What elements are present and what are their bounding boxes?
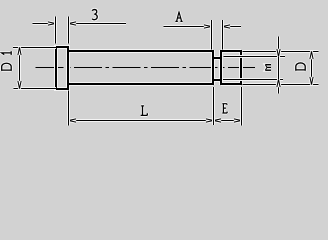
vertical extension / dimension lines <box>20 17 312 126</box>
W bottom extension line <box>223 79 283 81</box>
shaft bottom edge <box>68 83 213 85</box>
label A <box>175 11 182 21</box>
dim D top arrow <box>310 52 313 60</box>
dim D1 bottom arrow <box>18 81 21 89</box>
dim E line <box>214 120 242 122</box>
label D1 (rotated 90 CCW) <box>2 51 12 71</box>
groove bottom edge <box>213 79 221 81</box>
dim W top arrow <box>277 49 280 57</box>
part outline halo <box>56 47 241 89</box>
D top extension line <box>243 51 319 53</box>
dim 3 left arrow <box>48 22 56 25</box>
dim L left extension line <box>68 91 70 126</box>
shaft top edge <box>68 50 213 52</box>
horizontal arrowheads <box>48 22 242 122</box>
label L <box>141 106 148 116</box>
dim 3 left tail <box>33 23 56 25</box>
dim A left arrow <box>204 25 212 28</box>
label W (rotated, drawn as path) <box>265 65 271 71</box>
dim 3 right tail <box>69 23 127 25</box>
dim L right arrow <box>206 119 214 122</box>
dim 3 left extension line <box>55 17 57 44</box>
tip left edge <box>220 50 222 85</box>
shaft right end edge <box>212 50 214 85</box>
dim 3 right extension line <box>68 17 70 44</box>
dim A right extension line <box>222 20 224 50</box>
dim L/E shared extension line <box>213 87 215 125</box>
text labels drawn as stroke paths (bitmap-font style) <box>2 10 306 116</box>
label 3 <box>92 10 97 20</box>
tip bottom edge <box>221 83 241 85</box>
head rectangle (dia D1) <box>56 47 68 89</box>
dim A left extension line <box>211 20 213 50</box>
horizontal dimension / extension lines <box>13 24 319 121</box>
dim E right arrow <box>234 119 242 122</box>
dim D bottom arrow <box>310 77 313 85</box>
dim D1 top arrow <box>18 48 21 56</box>
D bottom extension line <box>243 84 319 86</box>
dim E right extension line <box>241 87 243 126</box>
dim D1 line <box>19 48 21 89</box>
dim A right tail <box>223 26 242 28</box>
dim W line <box>278 37 280 94</box>
dim E left arrow <box>214 119 222 122</box>
dim 3 right arrow <box>69 22 77 25</box>
label D (rotated 90 CCW) <box>296 63 305 71</box>
dim A left tail <box>164 26 212 28</box>
centerline (dash-dot) of part axis <box>36 67 256 69</box>
dim D line <box>311 52 313 85</box>
mechanical drawing: headed stud with neck groove, dimensioned <box>0 0 328 133</box>
D1 top extension line <box>13 47 56 49</box>
tip right end edge <box>240 50 242 85</box>
vertical arrowheads <box>18 48 313 89</box>
dim L left arrow <box>69 119 77 122</box>
W top extension line <box>224 56 286 58</box>
D1 bottom extension line <box>14 88 57 90</box>
label E <box>222 104 227 113</box>
tip top edge <box>221 50 241 52</box>
dim W bottom arrow <box>277 80 280 88</box>
dim L line <box>69 120 214 122</box>
dim A right arrow <box>223 25 231 28</box>
groove top edge <box>213 57 221 59</box>
